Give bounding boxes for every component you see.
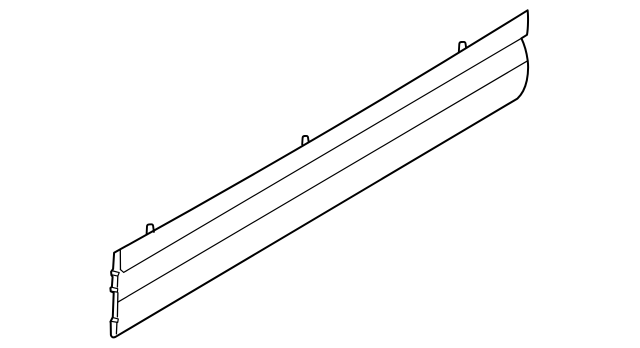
left end cap inner edge segment 3 bbox=[116, 293, 119, 317]
clip tab 2 bbox=[302, 136, 308, 145]
left edge bead 2 bbox=[111, 287, 118, 292]
left end cap inner edge segment 1 bbox=[119, 250, 121, 270]
left edge bead 3 bbox=[111, 318, 118, 323]
clip tab 3 bbox=[459, 42, 466, 53]
upper crease line bbox=[120, 38, 521, 272]
clip tab 1 bbox=[147, 224, 154, 234]
panel main outline bbox=[110, 10, 528, 337]
left end cap inner edge segment 2 bbox=[116, 276, 118, 287]
left edge bead 1 bbox=[111, 271, 119, 276]
lower crease line bbox=[118, 61, 528, 302]
left end cap inner edge segment 4 bbox=[115, 323, 118, 334]
